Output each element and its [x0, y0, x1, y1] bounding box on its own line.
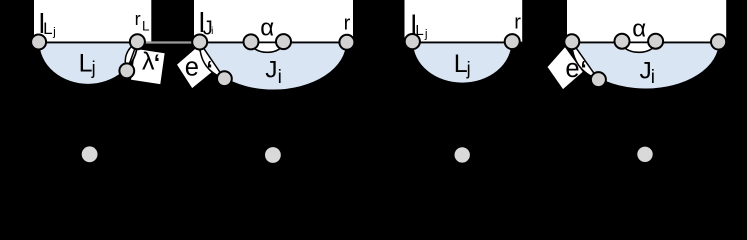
label l_Lj [39, 8, 56, 39]
half-moon L_j [39, 42, 138, 84]
node alpha1 panel4 [615, 34, 630, 49]
panel 2 base line [194, 41, 353, 43]
svg-text:L: L [79, 49, 93, 77]
node alpha2 panel2 [276, 34, 291, 49]
label l_Lj panel3 [411, 9, 428, 40]
svg-text:e: e [185, 53, 199, 81]
svg-text:L: L [415, 22, 423, 39]
label r panel3 [514, 12, 521, 34]
panel 4 white box [567, 0, 726, 42]
svg-text:i: i [211, 26, 213, 37]
node alpha1 panel2 [244, 34, 259, 49]
svg-text:e: e [565, 55, 579, 83]
half-moon L_j panel3 [412, 42, 512, 83]
node l_Ji [192, 35, 207, 50]
label L_j panel1 [79, 49, 96, 78]
alpha bulge panel2 [251, 42, 284, 52]
node lambda small [119, 63, 134, 78]
label e-prime panel4 [565, 55, 586, 83]
label lambda-prime [142, 47, 160, 75]
node r_L [130, 34, 145, 49]
node r panel3 [505, 34, 520, 49]
svg-text:‘: ‘ [154, 49, 160, 75]
svg-text:L: L [142, 18, 150, 33]
svg-text:‘: ‘ [580, 56, 586, 82]
svg-text:j: j [424, 26, 428, 40]
label L_j panel3 [454, 50, 471, 78]
node e small panel4 [591, 72, 606, 87]
node e small panel2 [217, 71, 232, 86]
label r panel2 [344, 12, 351, 34]
half-moon J_i panel4 [572, 42, 720, 89]
svg-text:j: j [91, 58, 96, 78]
svg-text:L: L [43, 19, 52, 38]
svg-text:r: r [514, 12, 521, 34]
node r panel2 [339, 35, 354, 50]
label J_i panel4 [640, 58, 656, 88]
node l_Lj panel3 [405, 34, 420, 49]
dot 4 [637, 147, 652, 162]
svg-text:j: j [466, 58, 471, 78]
lens e-prime panel4 [572, 42, 599, 80]
svg-text:r: r [344, 12, 351, 34]
node alpha2 panel4 [648, 34, 663, 49]
panel 3 white box [405, 0, 523, 42]
item lambda-prime diamond [130, 48, 165, 85]
dot 1 [82, 146, 98, 162]
panel 1 base line [34, 41, 151, 43]
item e-prime diamond panel2 [176, 47, 213, 90]
label alpha panel2 [260, 15, 274, 42]
item e-prime diamond panel4 [547, 46, 584, 90]
label l_Ji [199, 7, 214, 40]
panel 1 white box [34, 0, 151, 42]
svg-text:α: α [260, 15, 274, 42]
node left panel4 [564, 34, 579, 49]
node right panel4 [711, 34, 726, 49]
panel 3 base line [405, 41, 523, 43]
svg-text:j: j [52, 25, 56, 39]
lens e-prime panel2 [200, 42, 225, 78]
svg-text:i: i [651, 67, 655, 88]
half-moon J_i panel2 [200, 42, 347, 90]
alpha bulge panel4 [622, 42, 656, 52]
panel 4 base line [567, 41, 726, 43]
node l_Lj [31, 35, 46, 50]
dot 2 [265, 147, 281, 163]
lens lambda-prime [125, 42, 137, 71]
connector gray line r_L to l_Ji [137, 41, 199, 43]
svg-text:α: α [632, 15, 646, 42]
svg-text:J: J [265, 57, 277, 84]
label e-prime panel2 [185, 53, 213, 82]
svg-text:i: i [278, 67, 282, 88]
label r_L [135, 9, 150, 33]
panel 2 white box [194, 0, 353, 42]
label alpha panel4 [632, 15, 646, 42]
dot 3 [455, 147, 470, 162]
svg-text:r: r [135, 9, 141, 29]
label J_i panel2 [265, 57, 282, 88]
svg-text:‘: ‘ [206, 56, 212, 82]
